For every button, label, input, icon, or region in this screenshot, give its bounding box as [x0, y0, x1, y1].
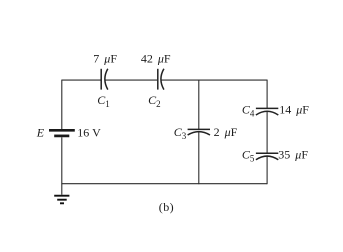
wire top-left: node to C1 — [62, 79, 101, 81]
wire left: top-left corner down to battery — [61, 80, 63, 129]
capacitor C4 14uF — [256, 108, 278, 115]
capacitor C5 35uF — [256, 153, 278, 160]
svg-text:16 V: 16 V — [77, 125, 101, 139]
wire right upper: top-right corner to C4 — [266, 80, 268, 108]
svg-text:(b): (b) — [159, 200, 174, 214]
wire left-lower: battery to bottom wire — [61, 137, 63, 184]
wire right lower: C5 to bottom-right corner — [266, 156, 268, 184]
wire middle-branch upper: top wire to C3 — [198, 80, 200, 129]
svg-text:35 μF: 35 μF — [278, 147, 308, 161]
wire ground stem — [61, 184, 63, 195]
wire bottom — [62, 183, 267, 185]
capacitor C1 7uF — [101, 69, 108, 90]
wire top-middle: C1 to C2 — [105, 79, 157, 81]
svg-text:7 μF: 7 μF — [93, 51, 117, 65]
battery E — [49, 130, 75, 136]
svg-text:14 μF: 14 μF — [279, 102, 309, 116]
svg-text:C2: C2 — [148, 93, 161, 109]
wire middle-branch lower: C3 to bottom wire — [198, 132, 200, 184]
capacitor C2 42uF — [158, 69, 164, 90]
svg-text:C5: C5 — [242, 147, 255, 163]
ground — [54, 196, 69, 204]
capacitor C3 2uF — [188, 129, 210, 135]
wire right middle: C4 to C5 — [266, 111, 268, 152]
svg-text:C1: C1 — [97, 93, 110, 109]
svg-text:2 μF: 2 μF — [214, 125, 238, 139]
svg-text:C3: C3 — [174, 125, 187, 141]
wire top-right: C2 to top-right corner — [161, 79, 267, 81]
svg-text:E: E — [36, 125, 45, 139]
svg-text:42 μF: 42 μF — [141, 51, 171, 65]
svg-text:C4: C4 — [242, 102, 255, 118]
